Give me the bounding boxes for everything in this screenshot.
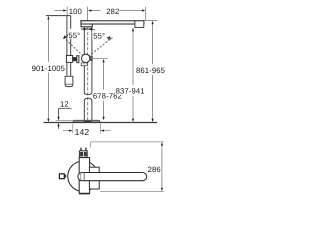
svg-text:861-965: 861-965 — [136, 66, 165, 75]
dim 142 — [63, 124, 111, 134]
handle prongs — [80, 148, 81, 151]
dim 861-965 — [152, 24, 154, 119]
dim texts right side — [92, 91, 116, 100]
white boxes under 55 texts — [68, 29, 81, 39]
svg-text:901-1005: 901-1005 — [32, 64, 65, 73]
under-valve detail — [81, 63, 87, 66]
wire 55-arc-right — [88, 29, 110, 40]
handle top view — [79, 151, 87, 158]
wire 55-diagonal-right — [86, 38, 113, 59]
dim 837-941 — [132, 31, 134, 119]
svg-text:12: 12 — [60, 100, 69, 109]
wire dim-100 line — [55, 7, 158, 21]
column — [84, 27, 92, 121]
svg-text:55°: 55° — [68, 31, 80, 40]
handshower wand — [46, 16, 71, 77]
base circle top view — [68, 161, 98, 191]
right stub — [90, 56, 93, 61]
svg-text:100: 100 — [69, 7, 82, 16]
lever bar — [73, 57, 77, 61]
dim 901-1005 — [47, 19, 49, 119]
handshower head — [65, 76, 73, 86]
dim 286 extension lines — [91, 142, 164, 192]
spout bar — [81, 21, 144, 24]
flange — [77, 56, 79, 63]
column top view — [79, 158, 89, 194]
escutcheon top view — [89, 167, 99, 189]
arc arrowheads — [62, 28, 112, 41]
node centerline — [87, 27, 89, 121]
floor line — [44, 122, 158, 124]
column bottom edge emphasis — [79, 193, 89, 195]
svg-text:286: 286 — [148, 165, 161, 174]
wire 55-arc-left — [64, 29, 87, 38]
dim 678-782 — [91, 57, 108, 59]
valve handle knob — [66, 56, 72, 63]
svg-text:142: 142 — [75, 127, 90, 137]
holder knob top view — [59, 174, 64, 179]
base plate — [73, 120, 101, 122]
valve circle — [82, 54, 90, 62]
svg-text:55°: 55° — [93, 32, 105, 41]
svg-text:282: 282 — [106, 7, 119, 16]
spout escutcheon block — [81, 21, 92, 27]
wire 55-diagonal-left — [64, 38, 86, 59]
spout top view oblong — [78, 173, 147, 181]
spout tip block — [135, 21, 144, 28]
svg-text:837-941: 837-941 — [116, 87, 145, 96]
